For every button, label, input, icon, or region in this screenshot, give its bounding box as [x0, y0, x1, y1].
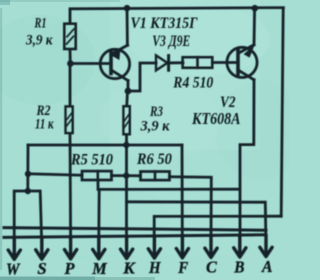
wire: V1 emitter junction down to R3 top — [125, 91, 128, 105]
transistor V2 base bar — [236, 50, 240, 74]
wire: right edge vertical from rail down to node H2 line — [281, 8, 283, 216]
junction: left vertical on W/S split bar — [25, 188, 31, 194]
output arrow F — [176, 236, 188, 258]
wire: base node to V1 base — [70, 62, 110, 65]
resistor R2 — [66, 106, 73, 133]
transistor V1 collector diagonal — [113, 45, 128, 53]
wire: base node down to R2 top — [69, 64, 72, 106]
wire: W/S split bar with columns W and S — [14, 191, 41, 237]
svg-text:КТ608А: КТ608А — [191, 109, 240, 128]
resistor R4 — [183, 57, 213, 68]
svg-text:B: B — [233, 257, 244, 276]
svg-text:F: F — [177, 258, 188, 277]
junction: V2 collector on top rail — [252, 5, 259, 12]
svg-text:R6 50: R6 50 — [136, 151, 172, 168]
junction: left vertical on line-2 — [25, 171, 31, 177]
wire: horizontal line-2 to R5 left terminal — [28, 174, 82, 175]
wire: V2 emitter down with jog to output column B — [240, 80, 254, 236]
resistor R5 — [82, 171, 112, 180]
wire: output column M down from R5 tap line — [97, 189, 100, 236]
junction: V1 collector on top rail — [124, 5, 131, 12]
svg-text:A: A — [261, 257, 272, 276]
resistor R1 — [64, 24, 75, 49]
wire: R3 bottom down through line-1, line-2, H1 to output column K — [125, 135, 128, 236]
output arrow B — [234, 235, 246, 257]
svg-text:3,9 к: 3,9 к — [140, 119, 170, 135]
transistor V2 collector diagonal — [239, 45, 254, 53]
output arrow C — [205, 235, 217, 257]
resistor R3 — [123, 106, 129, 134]
output arrow A — [260, 235, 272, 257]
wire: R5 right terminal to node K/R6 — [112, 174, 127, 177]
transistor V2 emitter diagonal — [239, 71, 254, 80]
diode V3 — [156, 55, 169, 70]
wire: R2 bottom down through line-1 and line-2 to output column P — [69, 134, 72, 237]
junction: R3 column on line-1 — [123, 142, 129, 148]
svg-text:M: M — [91, 259, 107, 278]
wire: line H2 from output column H to right edge vertical — [154, 216, 281, 236]
svg-text:K: K — [122, 259, 136, 278]
transistor V1 emitter diagonal — [113, 71, 129, 81]
wire: R5 tap down and horizontal line to column B — [98, 180, 240, 189]
svg-text:C: C — [206, 258, 217, 277]
wire: R4 to V2 base — [212, 61, 237, 64]
wire: R6 right terminal to output column C — [170, 177, 212, 236]
svg-text:P: P — [64, 259, 75, 278]
junction: R3 column on line-2 / R5-R6 node — [123, 172, 129, 178]
wire: V2 collector up to top rail — [253, 8, 256, 45]
svg-text:R4 510: R4 510 — [172, 75, 213, 92]
svg-text:S: S — [37, 259, 46, 278]
wire: node K to R6 left terminal — [126, 174, 140, 177]
junction: V1 base node (R1/R2) — [67, 60, 74, 67]
transistor V1 base bar — [109, 51, 113, 73]
wire: V1 collector up to top rail — [126, 8, 129, 45]
svg-text:V1 КТ315Г: V1 КТ315Г — [131, 15, 198, 32]
transistor V1 body — [100, 49, 129, 78]
wire: top supply rail — [70, 8, 283, 22]
wire: lower bus line — [4, 235, 266, 238]
svg-text:11 к: 11 к — [35, 116, 54, 132]
junction: V1 emitter node (R3/V3) — [125, 88, 132, 95]
wire: emitter junction right and up to diode V3 anode — [128, 63, 156, 91]
output arrow S — [36, 237, 48, 259]
wire: V1 emitter down to emitter junction — [127, 81, 130, 91]
wire: left vertical joining line-1, line-2 and W/S split bar — [26, 145, 29, 191]
output arrow H — [148, 236, 160, 258]
wire: output column F down from line-1 — [181, 145, 184, 236]
svg-text:R5 510: R5 510 — [70, 152, 113, 169]
output arrow K — [121, 236, 133, 259]
output arrow P — [65, 237, 77, 259]
svg-text:H: H — [148, 258, 161, 277]
wire: R1 bottom to V1 base node — [69, 50, 72, 63]
svg-text:V3 Д9Е: V3 Д9Е — [152, 33, 190, 50]
wire: line H1 from node K to output column A — [127, 202, 266, 235]
svg-text:W: W — [6, 259, 21, 278]
transistor V2 emitter arrowhead — [244, 44, 255, 57]
wire: upper bus line — [4, 228, 266, 231]
wire: V3 cathode to R4 — [170, 61, 183, 64]
svg-text:R1: R1 — [34, 16, 47, 32]
transistor V2 body — [227, 47, 257, 77]
svg-text:3,9 к: 3,9 к — [25, 33, 53, 49]
resistor R6 — [141, 172, 170, 181]
transistor V1 emitter arrowhead — [111, 49, 121, 60]
output arrow W — [8, 237, 20, 259]
output arrow M — [93, 236, 105, 258]
wire: horizontal line-1 (node of R3 bottom) — [28, 144, 182, 147]
